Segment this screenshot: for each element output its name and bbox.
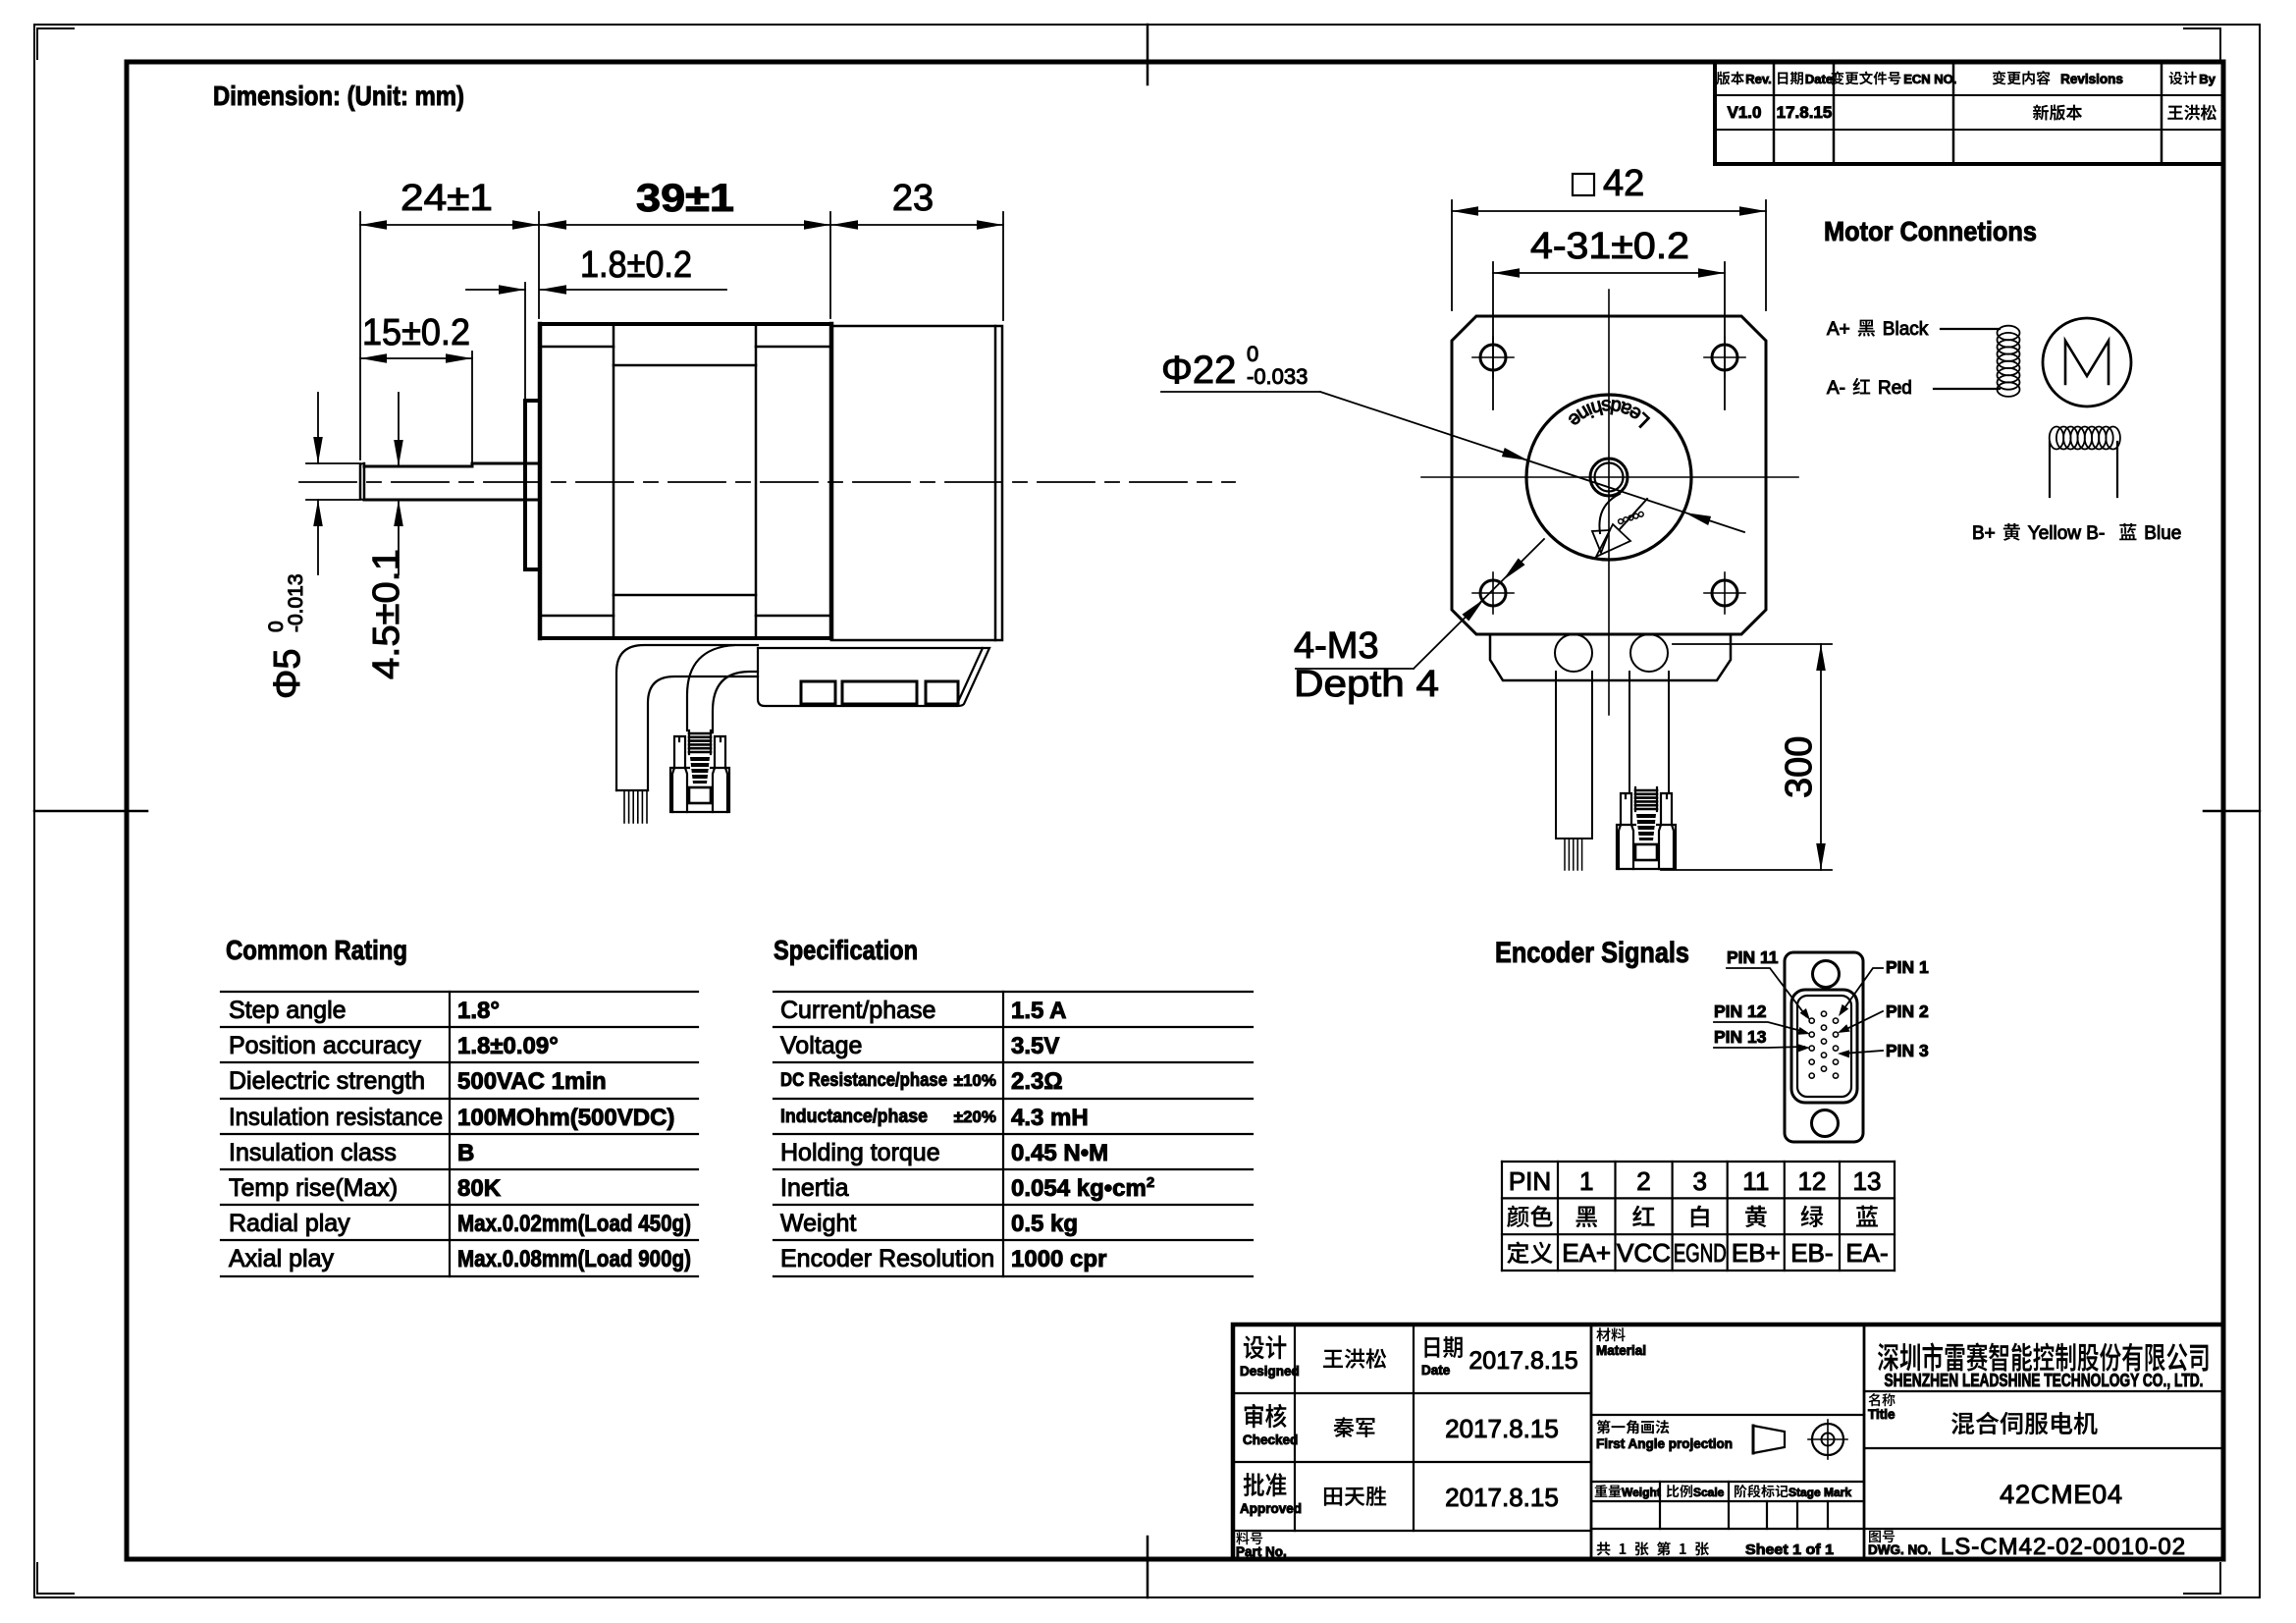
svg-text:PIN 13: PIN 13 bbox=[1714, 1027, 1767, 1047]
connector side view bbox=[689, 730, 711, 754]
designed row bbox=[1244, 1335, 1264, 1359]
svg-text:Approved: Approved bbox=[1240, 1501, 1302, 1516]
svg-text:4-31±0.2: 4-31±0.2 bbox=[1530, 226, 1689, 267]
svg-text:Encoder Resolution: Encoder Resolution bbox=[780, 1245, 994, 1272]
M3 screw hole bbox=[1480, 345, 1506, 370]
wire ribbon 2 (motor cable, side view) bbox=[687, 645, 734, 730]
svg-text:Red: Red bbox=[1878, 378, 1912, 399]
rotation direction straight arrow bbox=[1620, 499, 1647, 529]
encoder housing bbox=[831, 326, 1002, 640]
svg-text:1000 cpr: 1000 cpr bbox=[1011, 1246, 1106, 1272]
svg-text:Current/phase: Current/phase bbox=[780, 997, 935, 1024]
front boss bbox=[525, 401, 540, 569]
middle section rows bbox=[1591, 1414, 1864, 1416]
svg-text:Date: Date bbox=[1805, 72, 1833, 86]
dwg no cell bbox=[1869, 1531, 1881, 1543]
svg-text:-0.033: -0.033 bbox=[1247, 364, 1308, 389]
dim 4.5±0.1 bbox=[398, 393, 400, 466]
specification table lines bbox=[774, 991, 1253, 993]
svg-text:Material: Material bbox=[1596, 1343, 1646, 1358]
svg-text:42: 42 bbox=[1603, 163, 1644, 204]
strip window 2 bbox=[842, 681, 917, 704]
svg-text:Holding torque: Holding torque bbox=[780, 1139, 940, 1166]
front right wire bundle bbox=[1629, 672, 1630, 791]
M3 screw hole bbox=[1712, 580, 1737, 606]
svg-text:Φ5: Φ5 bbox=[267, 649, 308, 699]
svg-text:EGND: EGND bbox=[1674, 1238, 1727, 1268]
svg-text:A-: A- bbox=[1827, 378, 1845, 399]
motor circle M bbox=[2043, 318, 2131, 406]
svg-text:1.8±0.09°: 1.8±0.09° bbox=[457, 1033, 559, 1059]
wire A- bbox=[1934, 388, 2000, 390]
svg-text:Inductance/phase: Inductance/phase bbox=[780, 1106, 928, 1127]
front left wire bundle bbox=[1555, 672, 1557, 839]
strip window 3 bbox=[926, 681, 958, 704]
coil B legs bbox=[2050, 442, 2117, 497]
svg-text:Yellow B-: Yellow B- bbox=[2028, 523, 2106, 544]
title block outer bbox=[1233, 1325, 2223, 1559]
svg-text:Dielectric strength: Dielectric strength bbox=[229, 1067, 425, 1095]
svg-text:80K: 80K bbox=[457, 1175, 502, 1202]
svg-text:15±0.2: 15±0.2 bbox=[362, 312, 470, 353]
svg-text:Radial play: Radial play bbox=[229, 1210, 350, 1237]
projection symbol trapezoid bbox=[1753, 1426, 1785, 1453]
svg-text:Position accuracy: Position accuracy bbox=[229, 1032, 421, 1059]
checked row bbox=[1245, 1404, 1263, 1429]
svg-text:2017.8.15: 2017.8.15 bbox=[1445, 1414, 1559, 1443]
svg-text:ECN NO.: ECN NO. bbox=[1903, 72, 1956, 86]
svg-text:EB+: EB+ bbox=[1732, 1238, 1781, 1268]
svg-text:Checked: Checked bbox=[1243, 1433, 1298, 1447]
side view centerline (axis) bbox=[299, 481, 1235, 483]
svg-text:Max.0.08mm(Load 900g): Max.0.08mm(Load 900g) bbox=[457, 1246, 691, 1272]
corner mark top-right bbox=[2184, 28, 2220, 59]
connector front view bbox=[1635, 787, 1657, 811]
DB15 pins bbox=[1809, 1018, 1814, 1023]
dim 4-31±0.2 bbox=[1492, 262, 1494, 409]
svg-text:24±1: 24±1 bbox=[400, 178, 493, 219]
svg-text:1.8±0.2: 1.8±0.2 bbox=[580, 244, 692, 286]
PIN table bbox=[1502, 1161, 1895, 1163]
motor mid section bbox=[614, 364, 756, 367]
svg-text:Revisions: Revisions bbox=[2060, 72, 2123, 86]
svg-text:Max.0.02mm(Load 450g): Max.0.02mm(Load 450g) bbox=[457, 1211, 691, 1237]
svg-text:12: 12 bbox=[1797, 1166, 1826, 1196]
svg-text:300: 300 bbox=[1779, 736, 1820, 798]
svg-text:Scale: Scale bbox=[1693, 1486, 1725, 1499]
svg-text:±10%: ±10% bbox=[954, 1071, 996, 1090]
svg-text:PIN 1: PIN 1 bbox=[1886, 957, 1929, 977]
svg-text:4-M3: 4-M3 bbox=[1294, 625, 1379, 667]
svg-text:Stage Mark: Stage Mark bbox=[1789, 1486, 1851, 1499]
svg-text:4.3 mH: 4.3 mH bbox=[1011, 1105, 1089, 1131]
wire ribbon 1 (encoder cable, side view) bbox=[616, 645, 758, 790]
right section rows bbox=[1864, 1390, 2223, 1392]
encoder bottom strip bbox=[758, 648, 989, 706]
svg-text:SHENZHEN LEADSHINE TECHNOLOGY: SHENZHEN LEADSHINE TECHNOLOGY CO., LTD. bbox=[1885, 1371, 2204, 1390]
svg-text:0.5 kg: 0.5 kg bbox=[1011, 1211, 1078, 1237]
svg-text:Sheet 1 of 1: Sheet 1 of 1 bbox=[1745, 1542, 1834, 1558]
svg-text:0.45 N•M: 0.45 N•M bbox=[1011, 1140, 1108, 1166]
center tick bottom bbox=[1147, 1537, 1149, 1597]
motor rear flange bbox=[756, 322, 831, 326]
svg-text:V1.0: V1.0 bbox=[1728, 103, 1762, 122]
svg-text:1.8°: 1.8° bbox=[457, 998, 500, 1024]
center tick top bbox=[1147, 25, 1149, 84]
wire exit circle left bbox=[1555, 634, 1592, 672]
svg-text:2017.8.15: 2017.8.15 bbox=[1468, 1347, 1577, 1375]
svg-text:By: By bbox=[2199, 72, 2216, 86]
svg-text:PIN 3: PIN 3 bbox=[1886, 1041, 1929, 1060]
dim 300 bbox=[1673, 643, 1832, 645]
svg-text:Insulation class: Insulation class bbox=[229, 1139, 397, 1166]
front view vertical centerline bbox=[1608, 290, 1610, 715]
revision table header row bbox=[1717, 72, 1731, 85]
sheet row bbox=[1597, 1542, 1611, 1555]
svg-text:1: 1 bbox=[1579, 1166, 1593, 1196]
svg-text:Blue: Blue bbox=[2144, 523, 2181, 544]
square symbol bbox=[1573, 174, 1594, 195]
corner mark bottom-right bbox=[2184, 1563, 2220, 1594]
svg-text:EB-: EB- bbox=[1790, 1238, 1833, 1268]
svg-text:Step angle: Step angle bbox=[229, 997, 347, 1024]
svg-text:2: 2 bbox=[1636, 1166, 1650, 1196]
svg-text:-0.013: -0.013 bbox=[285, 573, 307, 632]
svg-text:B: B bbox=[457, 1140, 474, 1166]
svg-text:±20%: ±20% bbox=[954, 1108, 996, 1126]
dim 24±1 bbox=[359, 212, 361, 460]
M3 screw hole bbox=[1480, 580, 1506, 606]
coil phase A (vertical) bbox=[1998, 326, 2020, 341]
svg-text:3.5V: 3.5V bbox=[1011, 1033, 1059, 1059]
svg-text:17.8.15: 17.8.15 bbox=[1777, 103, 1833, 122]
svg-text:VCC: VCC bbox=[1617, 1238, 1671, 1268]
front view square flange bbox=[1452, 316, 1766, 634]
part no row bbox=[1236, 1532, 1249, 1544]
svg-text:Black: Black bbox=[1883, 319, 1929, 340]
svg-text:4.5±0.1: 4.5±0.1 bbox=[366, 549, 407, 679]
revision table frame bbox=[1713, 62, 1717, 164]
rotation direction curved arrow bbox=[1599, 494, 1620, 533]
rotor circle bbox=[1526, 395, 1691, 560]
svg-text:Title: Title bbox=[1868, 1407, 1896, 1422]
svg-text:100MOhm(500VDC): 100MOhm(500VDC) bbox=[457, 1105, 674, 1131]
center tick right bbox=[2204, 810, 2260, 813]
svg-text:Depth 4: Depth 4 bbox=[1294, 664, 1439, 705]
DB15 top hole bbox=[1813, 961, 1840, 988]
DB15 bottom hole bbox=[1812, 1110, 1839, 1137]
material cell bbox=[1596, 1327, 1610, 1341]
svg-text:DWG. NO.: DWG. NO. bbox=[1868, 1542, 1932, 1557]
wire strands side view bbox=[623, 790, 625, 823]
svg-text:13: 13 bbox=[1853, 1166, 1882, 1196]
shaft bbox=[359, 465, 362, 498]
svg-text:500VAC 1min: 500VAC 1min bbox=[457, 1068, 607, 1095]
svg-text:Temp rise(Max): Temp rise(Max) bbox=[229, 1174, 398, 1202]
svg-text:Dimension: (Unit: mm): Dimension: (Unit: mm) bbox=[213, 81, 464, 111]
svg-text:Designed: Designed bbox=[1240, 1364, 1300, 1379]
front connector block bbox=[1490, 634, 1731, 680]
svg-text:First Angle projection: First Angle projection bbox=[1596, 1436, 1733, 1451]
wire A+ bbox=[1941, 328, 2000, 330]
svg-text:DC Resistance/phase: DC Resistance/phase bbox=[780, 1069, 947, 1091]
svg-text:PIN 2: PIN 2 bbox=[1886, 1001, 1929, 1021]
svg-text:Motor Connetions: Motor Connetions bbox=[1824, 216, 2037, 246]
svg-text:Inertia: Inertia bbox=[780, 1174, 849, 1202]
M3 screw hole bbox=[1712, 345, 1737, 370]
motor front flange bbox=[540, 324, 614, 638]
center tick left bbox=[34, 810, 147, 813]
svg-text:PIN: PIN bbox=[1509, 1166, 1551, 1196]
svg-text:1.5 A: 1.5 A bbox=[1011, 998, 1066, 1024]
front view horizontal centerline bbox=[1421, 476, 1798, 478]
svg-text:0: 0 bbox=[1247, 342, 1258, 366]
DB15 connector outline bbox=[1785, 952, 1863, 1142]
svg-text:EA+: EA+ bbox=[1562, 1238, 1611, 1268]
svg-text:A+: A+ bbox=[1827, 319, 1850, 340]
common rating table lines bbox=[221, 991, 698, 993]
svg-text:Weight: Weight bbox=[1622, 1486, 1661, 1499]
svg-text:Weight: Weight bbox=[780, 1210, 856, 1237]
corner mark bottom-left bbox=[37, 1563, 74, 1594]
svg-text:0.054 kg•cm2: 0.054 kg•cm2 bbox=[1011, 1174, 1154, 1202]
svg-text:B+: B+ bbox=[1972, 523, 1996, 544]
title name cell bbox=[1868, 1393, 1880, 1406]
svg-text:EA-: EA- bbox=[1845, 1238, 1888, 1268]
svg-text:PIN 12: PIN 12 bbox=[1714, 1001, 1767, 1021]
dim square 42 bbox=[1451, 200, 1453, 310]
svg-text:Encoder Signals: Encoder Signals bbox=[1495, 937, 1689, 969]
dim phi5 bbox=[306, 462, 360, 464]
dim 39±1 bbox=[829, 212, 831, 318]
svg-text:2017.8.15: 2017.8.15 bbox=[1445, 1483, 1559, 1512]
svg-text:2.3Ω: 2.3Ω bbox=[1011, 1068, 1063, 1095]
svg-text:Date: Date bbox=[1421, 1363, 1451, 1378]
dim 23 bbox=[1002, 212, 1004, 320]
svg-text:39±1: 39±1 bbox=[636, 177, 734, 220]
approved row bbox=[1244, 1473, 1264, 1496]
dim 1.8±0.2 bbox=[524, 283, 526, 401]
svg-text:11: 11 bbox=[1742, 1166, 1769, 1196]
svg-text:Rev.: Rev. bbox=[1745, 72, 1772, 86]
corner mark top-left bbox=[37, 28, 74, 59]
svg-text:42CME04: 42CME04 bbox=[2000, 1480, 2123, 1509]
svg-text:PIN 11: PIN 11 bbox=[1727, 947, 1779, 967]
dot trail bbox=[1619, 519, 1624, 524]
projection symbol target bbox=[1812, 1424, 1843, 1455]
wire exit circle right bbox=[1630, 634, 1668, 672]
svg-text:23: 23 bbox=[892, 178, 934, 219]
coil phase B (horizontal) bbox=[2050, 427, 2064, 450]
shaft circle bbox=[1590, 459, 1628, 496]
DB15 shell outer bbox=[1791, 990, 1857, 1103]
title block verticals bbox=[1294, 1325, 1296, 1531]
first angle projection cell bbox=[1597, 1420, 1611, 1434]
strip window 1 bbox=[801, 681, 835, 704]
svg-text:Insulation resistance: Insulation resistance bbox=[229, 1104, 443, 1131]
title block left rows bbox=[1233, 1392, 1591, 1394]
svg-text:Part No.: Part No. bbox=[1236, 1544, 1287, 1559]
svg-text:Axial play: Axial play bbox=[229, 1245, 334, 1272]
svg-text:LS-CM42-02-0010-02: LS-CM42-02-0010-02 bbox=[1941, 1534, 2186, 1560]
company name bbox=[1878, 1343, 1898, 1371]
svg-text:Φ22: Φ22 bbox=[1161, 349, 1236, 392]
svg-text:Common Rating: Common Rating bbox=[226, 935, 407, 965]
dim 15±0.2 bbox=[471, 352, 473, 461]
weight scale stagemark labels bbox=[1595, 1485, 1608, 1497]
DB15 shell inner bbox=[1797, 996, 1851, 1097]
svg-text:3: 3 bbox=[1692, 1166, 1706, 1196]
svg-text:Specification: Specification bbox=[774, 935, 918, 965]
svg-text:Voltage: Voltage bbox=[780, 1032, 862, 1059]
